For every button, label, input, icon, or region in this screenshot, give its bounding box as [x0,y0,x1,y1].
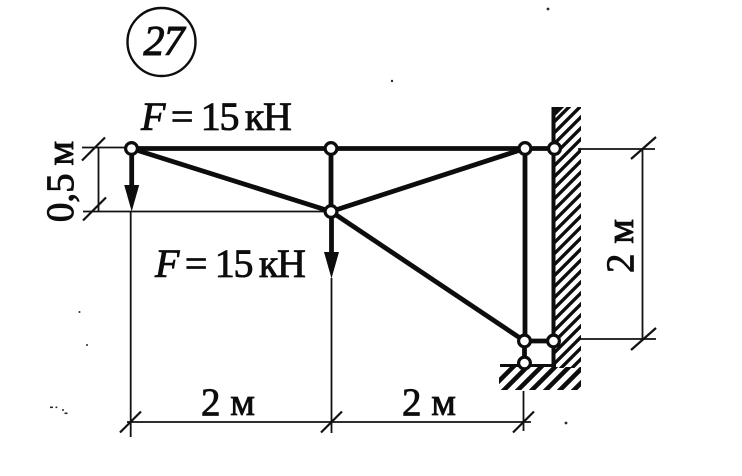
svg-text:F = 15 кН: F = 15 кН [154,241,305,286]
svg-text:F = 15 кН: F = 15 кН [140,94,291,139]
svg-text:27: 27 [144,19,187,65]
svg-text:2 м: 2 м [599,219,642,273]
svg-text:2 м: 2 м [402,381,456,424]
svg-text:2 м: 2 м [201,381,255,424]
svg-text:0,5 м: 0,5 м [39,141,82,222]
